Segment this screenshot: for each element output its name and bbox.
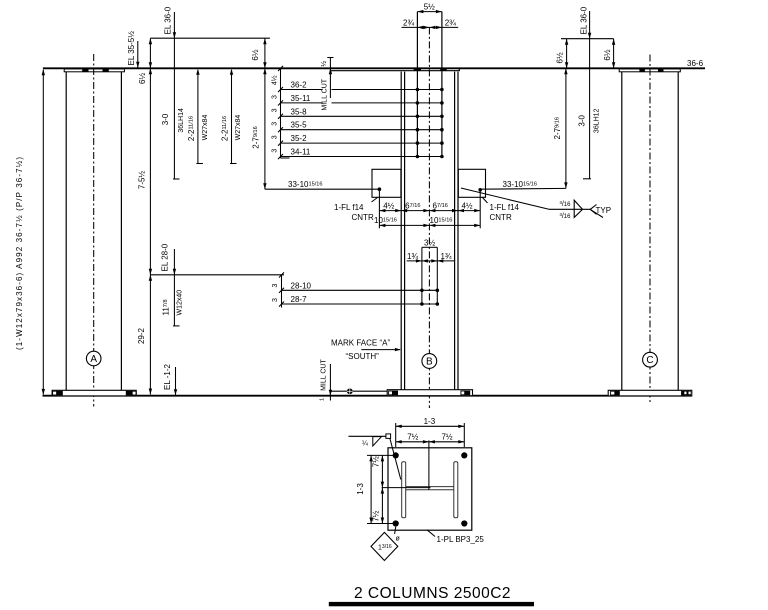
column B cap plate bottom line xyxy=(331,68,460,70)
33-10 15/16 left dimension xyxy=(265,180,380,189)
svg-text:B: B xyxy=(426,356,433,367)
dim line x265 (6 1/2 over 2-7 9/16) xyxy=(263,38,266,189)
right bay dim 6 1/2 right xyxy=(603,39,615,69)
column C centerline xyxy=(649,55,651,405)
svg-text:C: C xyxy=(646,355,653,366)
column B cap weld marks xyxy=(414,68,421,70)
svg-text:6½: 6½ xyxy=(138,73,147,84)
flange plate FL f14 left xyxy=(372,169,401,197)
row 35-8 xyxy=(281,107,444,116)
svg-text:MARK FACE “A”: MARK FACE “A” xyxy=(331,339,390,348)
svg-text:29-2: 29-2 xyxy=(137,327,146,344)
EL 35-5 1/2 label xyxy=(127,31,140,68)
grid bubble C xyxy=(643,352,658,367)
svg-text:35-5: 35-5 xyxy=(291,121,308,130)
svg-text:1-3: 1-3 xyxy=(424,417,436,426)
svg-text:4½: 4½ xyxy=(461,201,472,210)
column C left flange edge xyxy=(621,72,623,391)
svg-text:“SOUTH”: “SOUTH” xyxy=(346,352,380,361)
ladder spacing labels 4 1/2 and 3s xyxy=(270,75,278,152)
column B left flange inner edge xyxy=(404,72,406,390)
W27x84 beam seat line 2 xyxy=(230,69,237,164)
column C base plate xyxy=(608,390,692,396)
svg-text:7½: 7½ xyxy=(372,510,381,521)
svg-text:EL 35-5½: EL 35-5½ xyxy=(127,31,136,66)
dim line 7-5 1/2 / 29-2 at x150 xyxy=(149,38,152,394)
right dim line 2-7 9/16 xyxy=(564,68,567,188)
svg-text:2¾: 2¾ xyxy=(403,18,414,27)
detail dim 7 1/2 + 7 1/2 left xyxy=(372,455,385,523)
title underline bar xyxy=(329,602,534,606)
gage dim line 10 15/16 / 10 15/16 xyxy=(374,216,480,227)
svg-text:3: 3 xyxy=(272,284,279,288)
FL f14 callout right xyxy=(483,198,520,223)
detail plate callout 1-PL BP3_25 xyxy=(427,530,484,544)
svg-text:35-2: 35-2 xyxy=(291,134,308,143)
EL 28-0 level line xyxy=(150,274,284,276)
svg-text:MILL CUT: MILL CUT xyxy=(321,359,328,391)
splice dim line 2 3/4 + 2 3/4 xyxy=(402,18,459,29)
flange plate FL f14 right xyxy=(458,169,485,197)
svg-text:W12x40: W12x40 xyxy=(177,290,184,316)
EL -1-2 label xyxy=(163,364,177,396)
lower bolt group xyxy=(420,289,439,306)
lower spacing labels 3 / 3 xyxy=(272,284,279,303)
column A cap plate xyxy=(64,69,124,72)
detail vertical centerline xyxy=(428,440,430,489)
mill cut top note xyxy=(320,58,334,111)
erection bolt on strut xyxy=(347,388,353,394)
extension line from right plate bolt xyxy=(479,190,481,229)
top level line EL 35-5.5 xyxy=(43,67,705,69)
detail horizontal centerline xyxy=(382,487,431,489)
svg-text:5½: 5½ xyxy=(424,3,435,12)
detail extension lines from bolts left xyxy=(367,455,393,523)
svg-text:28-10: 28-10 xyxy=(291,281,312,290)
column B base plate xyxy=(387,390,472,396)
W27x84 beam seat line 1 xyxy=(196,69,203,164)
row 34-11 xyxy=(281,148,444,157)
svg-text:3: 3 xyxy=(271,95,278,99)
svg-text:4½: 4½ xyxy=(270,75,278,85)
lower 1 3/4 dim line xyxy=(407,252,455,263)
row 36-2 xyxy=(281,81,444,90)
svg-text:6½: 6½ xyxy=(251,49,260,60)
detail fillet weld symbol 1/4 xyxy=(349,434,401,480)
svg-text:2 COLUMNS 2500C2: 2 COLUMNS 2500C2 xyxy=(354,585,511,602)
left overall dimension line 36-7 1/2 xyxy=(42,69,45,395)
base plate detail: anchor holes xyxy=(393,452,468,526)
svg-text:3-0: 3-0 xyxy=(578,114,587,126)
svg-text:³/16: ³/16 xyxy=(560,213,572,220)
svg-text:7-5½: 7-5½ xyxy=(138,171,147,190)
row 35-2 xyxy=(281,134,444,143)
svg-text:34-11: 34-11 xyxy=(291,148,311,157)
svg-text:1¾: 1¾ xyxy=(407,252,418,261)
svg-text:CNTR: CNTR xyxy=(490,213,512,222)
column B splice stub right edge / bolt gage line xyxy=(441,12,443,157)
svg-text:1-3: 1-3 xyxy=(356,483,365,495)
EL 36-0 right label and 36LH12 seat line xyxy=(580,6,592,179)
column A base plate BP3_25 xyxy=(52,390,136,396)
row 35-11 xyxy=(281,94,444,103)
bottom tie strut line xyxy=(330,390,387,392)
svg-text:A: A xyxy=(90,354,97,365)
bolt row ladder tick line xyxy=(278,66,290,159)
detail column section left flange xyxy=(402,462,406,518)
EL 36-0 left label and 36LH14 seat line xyxy=(164,6,180,179)
svg-text:EL 36-0: EL 36-0 xyxy=(580,6,589,34)
column A left flange edge xyxy=(65,72,67,391)
row 28-10 xyxy=(282,281,440,290)
svg-text:2¾: 2¾ xyxy=(445,18,456,27)
svg-text:7½: 7½ xyxy=(441,433,452,442)
lower ladder tick line xyxy=(279,272,284,307)
column A centerline xyxy=(93,54,95,407)
svg-text:7½: 7½ xyxy=(407,433,418,442)
svg-text:W27x84: W27x84 xyxy=(235,115,242,141)
svg-text:36-6: 36-6 xyxy=(687,59,704,68)
svg-text:35-8: 35-8 xyxy=(291,107,308,116)
33-10 15/16 right dimension xyxy=(480,180,566,189)
column B right flange inner edge xyxy=(454,72,456,390)
EL 28-0 label xyxy=(161,243,180,326)
svg-text:³/16: ³/16 xyxy=(560,201,572,208)
row 35-5 xyxy=(281,121,444,130)
splice stub dim 5 1/2 xyxy=(417,3,442,14)
svg-text:28-7: 28-7 xyxy=(291,295,308,304)
extension line from left plate bolt xyxy=(378,189,380,228)
detail dim 7 1/2 + 7 1/2 top xyxy=(396,433,465,444)
column A right flange edge xyxy=(120,72,122,391)
column C cap plate xyxy=(619,69,680,72)
FL f14 callout left xyxy=(334,198,378,223)
svg-text:(1-W12x79x36-6) A992 36-7½: (1-W12x79x36-6) A992 36-7½ (P/P 36-7½) xyxy=(15,156,24,350)
right bay EL 36-0 level line xyxy=(561,38,614,40)
svg-text:W27x84: W27x84 xyxy=(202,115,209,141)
svg-text:CNTR: CNTR xyxy=(352,213,374,222)
svg-text:ø: ø xyxy=(396,536,401,543)
svg-text:½: ½ xyxy=(320,61,328,67)
svg-text:3: 3 xyxy=(271,122,278,126)
detail dim 1-3 top xyxy=(396,417,465,447)
svg-text:3: 3 xyxy=(271,135,278,139)
column B splice stub left edge xyxy=(416,12,418,157)
base / ground line EL -1-2 xyxy=(43,395,692,397)
column B centerline xyxy=(428,27,430,408)
svg-text:1-FL f14: 1-FL f14 xyxy=(334,203,364,212)
grid bubble B xyxy=(422,354,437,369)
svg-text:1-PL BP3_25: 1-PL BP3_25 xyxy=(437,535,485,544)
detail column section right flange xyxy=(454,462,458,518)
svg-text:MILL CUT: MILL CUT xyxy=(322,78,329,110)
svg-text:3-0: 3-0 xyxy=(161,113,170,125)
svg-text:3: 3 xyxy=(272,298,279,302)
column B right flange outer edge xyxy=(457,72,459,390)
row 28-7 xyxy=(282,295,440,304)
svg-text:4½: 4½ xyxy=(383,201,394,210)
svg-text:TYP: TYP xyxy=(596,206,612,215)
svg-text:36LH14: 36LH14 xyxy=(178,108,185,133)
svg-text:1¾: 1¾ xyxy=(440,252,451,261)
svg-text:36-2: 36-2 xyxy=(291,81,308,90)
detail column section web xyxy=(406,487,454,490)
weld leader to TYP symbol xyxy=(461,188,611,220)
svg-text:35-11: 35-11 xyxy=(291,94,311,103)
base plate detail: plate outline xyxy=(388,448,472,530)
EL 36-0 level line left bay xyxy=(150,37,270,39)
svg-text:3: 3 xyxy=(271,149,278,153)
svg-text:7½: 7½ xyxy=(372,456,381,467)
svg-text:6½: 6½ xyxy=(556,52,565,63)
detail dim 1-3 left xyxy=(356,455,373,523)
svg-text:EL -1-2: EL -1-2 xyxy=(163,364,172,390)
detail bolt hole callout diamond 1 3/16 dia xyxy=(371,527,401,561)
upper bolt group xyxy=(416,88,444,159)
svg-text:EL 36-0: EL 36-0 xyxy=(164,6,173,34)
mill cut bottom note xyxy=(320,359,333,401)
svg-text:1: 1 xyxy=(320,398,326,401)
svg-text:1-FL f14: 1-FL f14 xyxy=(490,203,520,212)
MARK FACE A note xyxy=(331,339,401,361)
lower bolt stub 3 1/2 bracket xyxy=(422,238,437,304)
dim 6 1/2 left (below top line on 7-5 1/2 line) xyxy=(138,38,152,84)
svg-text:¼: ¼ xyxy=(362,440,368,447)
right bay dim 6 1/2 left xyxy=(556,39,569,69)
column B left flange outer edge xyxy=(400,72,402,390)
gage dim line 4.5 / 6 7/16 / 6 7/16 / 4.5 xyxy=(379,201,480,212)
svg-text:3: 3 xyxy=(271,108,278,112)
svg-text:EL 28-0: EL 28-0 xyxy=(161,243,170,271)
column C right flange edge xyxy=(677,72,679,391)
grid bubble A xyxy=(86,351,101,366)
svg-text:36LH12: 36LH12 xyxy=(594,108,601,133)
svg-text:6½: 6½ xyxy=(603,49,612,60)
